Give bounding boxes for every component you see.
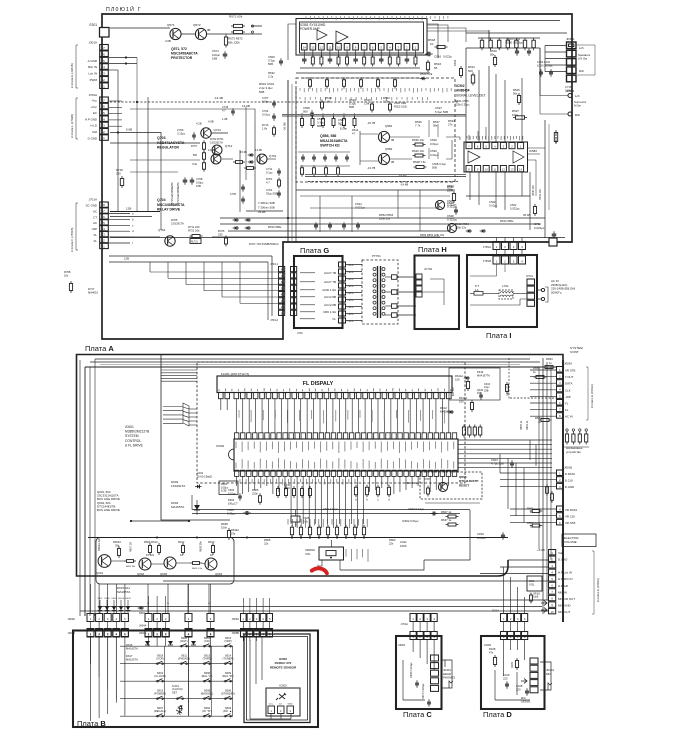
svg-text:МА4167ТА: МА4167ТА — [477, 373, 490, 377]
svg-text:МА165ТА: МА165ТА — [117, 590, 130, 594]
svg-text:RL701: RL701 — [191, 242, 198, 244]
resistor R519 — [490, 49, 497, 67]
headphone jack JK301 — [431, 655, 454, 691]
svg-text:C705: C705 — [230, 193, 237, 196]
junction dots rail — [156, 537, 365, 539]
resistor R520 — [364, 98, 374, 113]
resistor R521 — [468, 65, 475, 86]
svg-text:(DАТ.): (DАТ.) — [180, 639, 188, 643]
svg-text:(PHONO): (PHONO) — [178, 656, 190, 660]
svg-text:CONТ: CONТ — [570, 350, 579, 354]
svg-text:R531 100: R531 100 — [539, 189, 542, 200]
svg-text:FL: FL — [332, 317, 336, 321]
wire letters abcd — [147, 584, 210, 614]
svg-text:СМОБ: СМОБ — [348, 272, 355, 274]
svg-text:1.8k: 1.8k — [325, 100, 331, 104]
svg-text:0.022μс: 0.022μс — [355, 206, 366, 210]
svg-text:VR.DАТА: VR.DАТА — [565, 508, 577, 512]
diode D703 — [235, 218, 237, 222]
svg-text:VR.SТБ: VR.SТБ — [565, 521, 576, 525]
wire top bus to JT64 — [110, 238, 565, 242]
key switch S619 — [154, 688, 166, 699]
svg-text:C708: C708 — [196, 177, 203, 181]
svg-text:J703-2: J703-2 — [270, 318, 278, 322]
svg-text:3.15μс: 3.15μс — [177, 131, 186, 135]
svg-text:MSC3458ABCTA: MSC3458ABCTA — [157, 203, 185, 207]
svg-text:4.6Β: 4.6Β — [165, 39, 171, 43]
svg-text:16Β: 16Β — [196, 184, 201, 188]
diode D701 — [250, 153, 252, 157]
wire — [211, 132, 228, 134]
wire loop cluster top right — [449, 368, 510, 400]
rotated labels above rail — [287, 519, 289, 525]
svg-text:(ТАPЕ): (ТАPЕ) — [203, 656, 212, 660]
svg-text:R522 102k: R522 102k — [394, 104, 408, 108]
bracket К плате E J601A — [586, 367, 594, 420]
svg-text:50Β: 50Β — [268, 62, 273, 66]
svg-text:H.P Lch IN: H.P Lch IN — [558, 571, 572, 575]
svg-text:Б.DАТА: Б.DАТА — [565, 472, 575, 476]
wire — [181, 33, 195, 35]
wires J701A to J703 staircase — [109, 256, 279, 320]
resistor R604A — [113, 540, 121, 558]
svg-text:C706: C706 — [177, 128, 184, 132]
svg-text:FL: FL — [94, 239, 98, 243]
svg-text:220к: 220к — [447, 189, 454, 193]
jog dial symbol — [176, 705, 183, 715]
svg-text:R530 100: R530 100 — [532, 185, 535, 196]
svg-text:JС702: JС702 — [424, 267, 433, 271]
svg-text:Lch IN: Lch IN — [88, 72, 97, 76]
svg-text:Плата H: Плата H — [418, 245, 447, 254]
diode D604 symbol — [194, 500, 200, 515]
svg-text:5X1μС?: 5X1μС? — [228, 501, 238, 505]
wires JT64 into I — [470, 250, 522, 277]
svg-text:C603 0.01μс: C603 0.01μс — [408, 507, 425, 511]
svg-text:(VCR): (VCR) — [156, 656, 164, 660]
wires bus into FL frame left — [161, 370, 197, 381]
svg-text:-13.7Β: -13.7Β — [367, 166, 375, 170]
svg-text:Q581: Q581 — [385, 124, 393, 128]
svg-text:JK501: JK501 — [566, 37, 575, 41]
svg-text:Плата I: Плата I — [486, 331, 511, 340]
board outline Плата B — [73, 631, 318, 728]
svg-text:1000: 1000 — [400, 544, 407, 548]
svg-text:Q703: Q703 — [157, 136, 166, 140]
key switch S618 — [156, 653, 165, 664]
svg-text:FL: FL — [94, 233, 98, 237]
svg-text:15.3Β: 15.3Β — [240, 150, 247, 154]
svg-text:56k 120k: 56k 120k — [228, 41, 240, 45]
connector J701A — [401, 614, 438, 627]
svg-text:IC582: IC582 — [529, 149, 537, 153]
svg-text:Q712: Q712 — [225, 144, 233, 148]
key switch S611 — [178, 653, 190, 664]
resistor R636 — [284, 484, 291, 490]
resistor R516 — [426, 60, 441, 73]
coil L701 — [499, 284, 513, 299]
resistor R708 — [192, 160, 205, 172]
transistor Q701 — [240, 148, 277, 164]
FL display pin row — [219, 393, 452, 399]
resistor R716 — [262, 123, 276, 137]
svg-text:14.4Β: 14.4Β — [255, 148, 262, 152]
wires from IC582 to left — [390, 120, 486, 159]
svg-text:2.2к: 2.2к — [268, 75, 274, 79]
svg-text:Vdd: Vdd — [92, 130, 98, 134]
wires J101A up — [504, 567, 525, 614]
svg-text:J605А: J605А — [232, 617, 240, 621]
svg-text:C522: C522 — [510, 203, 517, 207]
svg-text:C707: C707 — [262, 96, 269, 100]
connector J604A — [139, 614, 214, 628]
wires from J604B down — [149, 637, 211, 716]
svg-text:L701: L701 — [502, 284, 509, 288]
svg-text:Q602: Q602 — [137, 572, 144, 576]
capacitor C526b — [447, 199, 457, 206]
svg-text:R612: R612 — [178, 540, 185, 544]
svg-text:500: 500 — [468, 69, 473, 73]
svg-text:R721 10k: R721 10k — [188, 228, 200, 232]
svg-text:0.9 Ом: 0.9 Ом — [578, 57, 587, 61]
diode D704 — [235, 226, 237, 230]
diode D610 — [145, 641, 150, 645]
svg-text:J701А: J701А — [88, 198, 97, 202]
svg-text:SWITCH КΩ: SWITCH КΩ — [320, 144, 340, 148]
right connector spine — [562, 360, 564, 622]
svg-text:0.01μс: 0.01μс — [430, 142, 439, 146]
labels right of VRW01 — [345, 549, 347, 557]
svg-text:R637 1к: R637 1к — [441, 518, 452, 522]
connector J604B board-side — [139, 630, 214, 638]
pin value labels under IC601 — [239, 479, 241, 482]
svg-text:Б.CLК: Б.CLК — [565, 479, 573, 483]
svg-text:J601Б: J601Б — [564, 466, 572, 470]
wires inside I — [470, 293, 527, 305]
capacitor C712 — [534, 222, 556, 239]
diode D4b — [138, 606, 146, 615]
resistor row above rail — [290, 525, 365, 538]
connector J601B lower group — [557, 506, 578, 525]
bracket К плате E (J301Б) — [70, 45, 78, 88]
capacitor C711 — [266, 167, 281, 176]
capacitor C607c — [422, 683, 431, 707]
transformer PT701 — [362, 254, 398, 324]
connector J301A — [88, 41, 109, 89]
svg-text:50Β: 50Β — [432, 166, 437, 170]
capacitor C524 — [447, 214, 458, 222]
svg-text:REGULATOR: REGULATOR — [157, 146, 179, 150]
wire — [160, 143, 162, 230]
svg-text:Rch: Rch — [579, 69, 585, 73]
wire stubs from J702A — [109, 101, 122, 126]
bracket К плате F (J701Б) — [70, 203, 78, 252]
board outline Плата G — [294, 256, 343, 328]
capacitor C602 boxed — [228, 488, 242, 501]
svg-text:-14.4Β: -14.4Β — [214, 96, 223, 100]
svg-text:СМОБ: СМОБ — [348, 314, 355, 316]
capacitor C103 C101 — [506, 37, 531, 56]
svg-text:Q604: Q604 — [215, 572, 222, 576]
capacitor C522 — [510, 203, 520, 210]
svg-text:4.2Β: 4.2Β — [196, 122, 202, 126]
resistor between Q714 Q701 — [233, 161, 256, 170]
svg-text:К плате Е (J301Б): К плате Е (J301Б) — [70, 63, 74, 88]
svg-text:150: 150 — [459, 399, 464, 403]
svg-text:C704: C704 — [262, 109, 269, 113]
transistor Q603 — [160, 557, 176, 576]
resistor R663 — [543, 357, 556, 369]
svg-text:IC601: IC601 — [125, 425, 134, 429]
node a — [251, 25, 253, 27]
svg-text:10 22к: 10 22к — [146, 553, 155, 557]
svg-text:0.022μс: 0.022μс — [534, 226, 545, 230]
wires right columns down — [530, 120, 549, 238]
svg-text:C532: C532 — [489, 200, 496, 204]
wire — [207, 33, 262, 35]
svg-text:R708: R708 — [64, 270, 71, 274]
resistor R718 — [116, 168, 124, 188]
junction — [117, 132, 119, 134]
capacitor C108 — [516, 684, 529, 696]
svg-text:R707: R707 — [191, 145, 198, 148]
wire — [110, 211, 160, 213]
svg-text:IC601: IC601 — [216, 444, 225, 448]
svg-text:H.LD: H.LD — [90, 124, 97, 128]
label R532 — [447, 185, 454, 193]
wire — [110, 216, 152, 218]
reset circuit Q605 — [405, 472, 482, 503]
resistor R527 — [512, 109, 527, 119]
clock set switch S-001 — [172, 684, 185, 700]
transistor Q582 — [367, 147, 394, 170]
svg-text:0.01μс: 0.01μс — [228, 491, 237, 495]
svg-text:ПЛ0Ю1Й Г: ПЛ0Ю1Й Г — [106, 5, 142, 13]
resistor R637 — [441, 518, 459, 526]
bracket К плате L (J702Б) — [70, 98, 78, 139]
bus lines top of bottom board — [85, 359, 556, 367]
svg-text:R605 1.9к: R605 1.9к — [192, 568, 202, 570]
svg-text:МIC VR OUТ: МIC VR OUТ — [558, 597, 575, 601]
svg-text:R609 R610: R609 R610 — [144, 540, 158, 544]
capacitor C606 — [227, 508, 251, 516]
connector J604B — [145, 629, 214, 637]
svg-text:К плате Е (J602А): К плате Е (J602А) — [596, 578, 600, 602]
svg-text:1.8к: 1.8к — [262, 126, 268, 130]
board outline Плата H — [415, 256, 460, 330]
svg-text:Lch: Lch — [575, 94, 580, 98]
svg-text:J701А: J701А — [401, 622, 409, 626]
resistor R518 — [428, 38, 448, 49]
svg-text:7.300nm 50Β: 7.300nm 50Β — [258, 206, 275, 210]
svg-text:150: 150 — [455, 377, 460, 381]
svg-text:Q582: Q582 — [385, 147, 393, 151]
svg-text:0.01μс: 0.01μс — [262, 112, 271, 116]
connector J701A — [86, 198, 109, 249]
small resistor near Q601 — [124, 560, 136, 568]
speaker jack JK501 — [566, 37, 595, 82]
svg-text:4.7: 4.7 — [266, 180, 270, 184]
electric volume label box — [562, 534, 596, 547]
capacitor C527 — [435, 106, 448, 114]
diode D4 — [197, 485, 200, 489]
dashed switching block boundary — [296, 78, 455, 182]
svg-text:МА165ТА: МА165ТА — [171, 505, 184, 509]
wire — [251, 25, 262, 27]
svg-text:1SS291TA: 1SS291TA — [171, 221, 184, 225]
svg-text:D607: D607 — [139, 612, 145, 615]
svg-text:Lch: Lch — [579, 46, 584, 50]
svg-text:(БАL "L"): (БАL "L") — [202, 674, 213, 678]
svg-text:Q603: Q603 — [160, 572, 167, 576]
resistor R658 — [221, 522, 231, 540]
connector J605B — [232, 629, 273, 637]
svg-text:D717: D717 — [88, 287, 95, 291]
svg-text:Q704: Q704 — [157, 198, 166, 202]
capacitor C104 C102 — [537, 60, 553, 77]
svg-text:R614А: R614А — [455, 374, 463, 378]
svg-text:0.1μс: 0.1μс — [266, 170, 273, 174]
capacitor C605 — [303, 516, 310, 523]
svg-text:Q714 MA4058MTA: Q714 MA4058MTA — [176, 182, 180, 205]
label R541 C525 — [455, 99, 470, 106]
svg-text:JТ6ЧА: JТ6ЧА — [483, 245, 491, 249]
svg-text:FL: FL — [565, 408, 569, 412]
diode D717 — [88, 287, 99, 294]
svg-text:Q586, 586: Q586, 586 — [320, 134, 336, 138]
svg-text:FR6 1.9А: FR6 1.9А — [323, 310, 336, 314]
svg-text:R562 R554 228к 22к: R562 R554 228к 22к — [420, 233, 445, 237]
board outline Плата D — [481, 636, 545, 709]
svg-text:560: 560 — [193, 154, 198, 157]
svg-text:SYSTEM: SYSTEM — [125, 434, 139, 438]
svg-text:D705: D705 — [171, 218, 178, 222]
diode array — [98, 598, 132, 614]
diode D702b — [250, 160, 252, 164]
svg-text:JK502: JK502 — [566, 89, 575, 93]
wires below IC582 — [470, 172, 522, 210]
wire labels above IC601 — [238, 410, 240, 418]
resistor R711 — [188, 225, 203, 238]
svg-text:D707-704 SVMB7000U2: D707-704 SVMB7000U2 — [249, 242, 279, 246]
key switch S692 — [202, 706, 212, 717]
wire long rail y537 — [88, 537, 508, 539]
bus line — [305, 176, 466, 178]
svg-text:-15.7Β: -15.7Β — [367, 121, 375, 125]
svg-text:J301А: J301А — [88, 41, 97, 45]
svg-text:PROTECTOR: PROTECTOR — [171, 56, 193, 60]
svg-text:IC602 0.01μс: IC602 0.01μс — [402, 519, 419, 523]
svg-text:VOL: VOL — [529, 583, 535, 587]
svg-text:-14.4Β: -14.4Β — [400, 183, 408, 187]
svg-text:C516: C516 — [434, 55, 442, 59]
svg-text:J702А: J702А — [88, 93, 97, 97]
dashed vertical — [508, 358, 510, 399]
diode D708 — [247, 218, 249, 222]
svg-text:J600Б: J600Б — [68, 631, 76, 635]
resistor R514 — [352, 128, 359, 135]
svg-text:К плате L (J702Б): К плате L (J702Б) — [70, 114, 74, 138]
svg-text:J301Б: J301Б — [398, 644, 405, 647]
svg-text:R607 1к: R607 1к — [441, 510, 452, 514]
wires transistor row — [111, 520, 205, 564]
svg-text:D510 5.2k: D510 5.2k — [420, 72, 433, 76]
wires PT701 to H — [397, 277, 416, 315]
svg-text:6.3Β: 6.3Β — [221, 489, 227, 493]
key switch S607 — [154, 706, 166, 717]
svg-text:R536 13к: R536 13к — [412, 138, 425, 142]
vertical bus to Плата G — [288, 80, 296, 242]
left bus verticals — [80, 359, 95, 616]
diode D612b — [168, 641, 173, 645]
key switch S693 — [223, 706, 233, 717]
transistor Q704 — [158, 228, 175, 246]
svg-text:СМОБ: СМОБ — [348, 293, 355, 295]
svg-text:R725: R725 — [218, 229, 225, 233]
wire loop around bus drivers — [96, 538, 234, 585]
transistor Q581 — [367, 121, 394, 143]
wire — [360, 131, 378, 165]
transistor Q602 — [137, 558, 151, 576]
svg-text:C623 0.01μс: C623 0.01μс — [405, 482, 420, 485]
svg-text:Q571, 572: Q571, 572 — [171, 47, 187, 51]
svg-text:0.322μс: 0.322μс — [447, 202, 457, 206]
svg-text:DC GND: DC GND — [86, 204, 97, 208]
svg-text:50/60Гц: 50/60Гц — [551, 290, 562, 294]
resistor R701 — [266, 177, 281, 189]
svg-text:R655 1к: R655 1к — [520, 420, 523, 430]
right side vertical bus — [539, 358, 551, 614]
pullup resistor bank right margin — [564, 429, 589, 447]
svg-text:100μс: 100μс — [262, 99, 270, 103]
svg-text:J101Б: J101Б — [484, 644, 491, 647]
resistor R523 — [453, 59, 463, 78]
resistor R607 — [441, 510, 459, 518]
svg-text:C701: C701 — [266, 188, 273, 192]
capacitor C508 — [303, 106, 314, 118]
svg-text:R523: R523 — [453, 59, 457, 66]
svg-text:R7Я7: R7Я7 — [424, 478, 431, 481]
svg-text:R605: R605 — [252, 488, 259, 492]
svg-text:D GND: D GND — [88, 136, 97, 140]
transistor Q586 — [435, 200, 444, 209]
svg-text:R108: R108 — [489, 647, 496, 651]
op-amp IC581 power amp — [296, 19, 427, 56]
svg-text:50Β: 50Β — [259, 90, 264, 94]
transistor bus drive row — [97, 490, 120, 512]
svg-text:4.7μс 25Β: 4.7μс 25Β — [491, 462, 504, 466]
wires mic area to left — [80, 560, 548, 611]
transistor Q601 — [96, 555, 111, 575]
svg-text:-WP: -WP — [565, 395, 571, 399]
tiny value labels row 2 — [299, 97, 301, 99]
svg-text:R716: R716 — [262, 123, 269, 127]
svg-text:AC27.7Β: AC27.7Β — [324, 271, 336, 275]
svg-text:GND 1.9А: GND 1.9А — [322, 288, 336, 292]
svg-text:RELAY DRIVE: RELAY DRIVE — [157, 208, 181, 212]
wire vertical x148 — [147, 97, 149, 211]
side connector to FL bus — [163, 403, 197, 426]
wires J101A to J101B — [413, 622, 524, 632]
svg-text:R602 39к: R602 39к — [126, 566, 135, 568]
svg-text:R711 220: R711 220 — [188, 225, 200, 229]
resistor group a b c d — [354, 485, 390, 502]
wire — [254, 122, 256, 210]
svg-text:560: 560 — [303, 110, 308, 114]
svg-text:5.6Β: 5.6Β — [126, 128, 132, 132]
bracket К плате E (J602А) — [592, 551, 600, 614]
resistor R655 — [533, 366, 547, 379]
